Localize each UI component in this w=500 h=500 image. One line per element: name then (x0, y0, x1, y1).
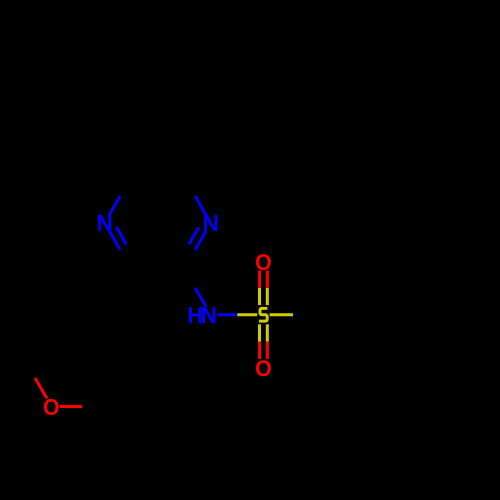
bond S8=O9 (upper, S halves yellow) (260, 288, 268, 305)
atom N7 (sulfonamide HN label) (189, 307, 202, 323)
bond N1-C2 (pyrazine, single, N half) (109, 196, 120, 215)
bond S8=O10 (lower, O halves red) (260, 342, 268, 359)
bond N7-S8 (N half blue) (217, 313, 237, 316)
atom N4 (pyrazine N right) (204, 215, 217, 231)
bond S8=O9 (upper, O halves red) (260, 271, 268, 288)
bond O12-C13 (methoxy CH3, O half red) (35, 378, 47, 399)
atom O10 (sulfonyl O lower) (256, 360, 271, 376)
bond N4=C5 (pyrazine, double, N halves) (189, 227, 206, 250)
bond O12-ring (O half red) (60, 405, 82, 408)
atom N1 (pyrazine N left) (98, 215, 111, 231)
atom O9 (sulfonyl O upper) (256, 254, 271, 270)
atom S8 (sulfonyl S) (259, 308, 268, 321)
bond N4-C3 (pyrazine, single, N half) (195, 196, 206, 215)
bond N1=C6 (pyrazine, double, N halves) (109, 227, 126, 250)
bond C5-N7 (to sulfonamide NH, N half) (195, 288, 206, 307)
bond S8=O10 (lower, S halves yellow) (260, 324, 268, 341)
atom O12 (methoxy O) (44, 399, 59, 415)
bond S8-C11 (methyl, S half yellow) (270, 313, 293, 316)
bond N7-S8 (S half yellow) (237, 313, 257, 316)
